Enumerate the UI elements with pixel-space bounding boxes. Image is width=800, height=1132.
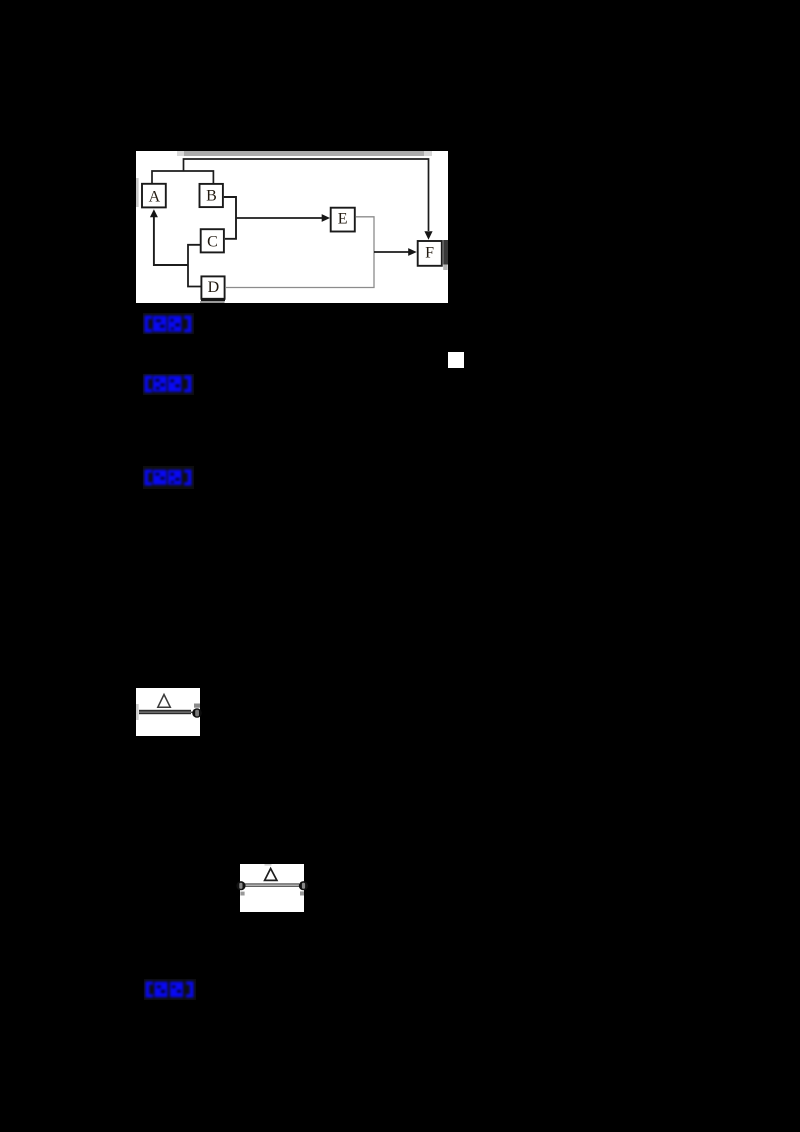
gray pad below left node xyxy=(240,892,244,896)
figure: small component 1 xyxy=(136,688,200,736)
thin lead to node xyxy=(191,712,194,713)
gray pad below right node xyxy=(300,891,304,895)
arrowhead into A bottom xyxy=(150,209,158,217)
wire: join to F with arrow xyxy=(374,251,409,253)
node circle right xyxy=(299,881,308,890)
block E xyxy=(331,208,355,232)
wire: bus over A and B xyxy=(152,171,213,184)
white square marker xyxy=(448,352,464,368)
shadow right of F xyxy=(443,240,448,265)
wire: C/D bracket to A with arrow xyxy=(188,245,201,287)
wire: join to E with arrow xyxy=(236,217,323,219)
label 2 (blue) xyxy=(143,374,194,395)
triangle (delay symbol) xyxy=(158,695,171,708)
arrowhead into E left xyxy=(322,214,330,222)
figure: small component 2 xyxy=(240,864,304,912)
block F xyxy=(418,241,442,266)
svg-text:E: E xyxy=(338,211,348,228)
block A xyxy=(142,184,166,208)
triangle (delay symbol) xyxy=(265,869,277,881)
node circle left xyxy=(236,881,245,890)
shadow under D xyxy=(201,299,225,301)
block D xyxy=(201,276,224,298)
light square under F shadow xyxy=(443,265,448,271)
wire: E right and D right join (thin) xyxy=(226,217,374,288)
block C xyxy=(201,229,224,252)
wire: top feedback line B/A-bus to F xyxy=(184,159,429,231)
wire: B right to vertical join xyxy=(224,197,236,239)
label 4 (blue) xyxy=(144,979,196,1000)
arrowhead into F top xyxy=(424,231,432,240)
top shadow band xyxy=(177,151,432,156)
svg-text:D: D xyxy=(208,279,220,296)
svg-text:C: C xyxy=(207,234,218,251)
figure: main block diagram panel xyxy=(136,151,448,303)
arrowhead into F left xyxy=(408,248,417,256)
svg-text:F: F xyxy=(425,244,434,261)
left edge shadow bar xyxy=(136,178,139,207)
label 3 (blue) xyxy=(143,466,194,489)
thick double line xyxy=(139,710,191,712)
gray pad above node xyxy=(194,704,200,708)
label 1 (blue) xyxy=(143,313,194,334)
svg-text:A: A xyxy=(149,189,161,206)
top gray notch xyxy=(265,864,272,866)
svg-text:B: B xyxy=(206,188,217,205)
wire: bracket mid to below A xyxy=(154,217,188,265)
node circle right xyxy=(192,708,202,718)
double line xyxy=(244,883,299,884)
left edge shadow bar xyxy=(136,704,139,720)
block B xyxy=(200,184,223,207)
